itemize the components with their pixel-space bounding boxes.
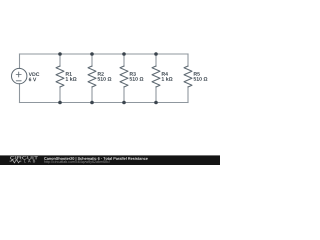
wire VDC top lead (19, 54, 21, 68)
label 6 V (29, 78, 37, 82)
wire R2 bottom lead (91, 87, 93, 103)
label R3 (130, 72, 136, 76)
resistor R3 zigzag (120, 66, 128, 87)
V1 minus sign (16, 80, 21, 82)
wire R1 bottom lead (59, 87, 61, 103)
V1 plus sign (16, 72, 21, 77)
footer bar (0, 155, 220, 165)
wire R5 bottom lead (187, 87, 189, 103)
node junction bottom R2 (90, 101, 94, 105)
wire R4 top lead (155, 54, 157, 66)
resistor R2 zigzag (88, 66, 96, 87)
wire R5 top lead (187, 54, 189, 66)
node junction bottom R1 (58, 101, 62, 105)
node junction bottom R3 (122, 101, 126, 105)
footer title text (44, 157, 148, 161)
wire R1 top lead (59, 54, 61, 66)
resistor R1 zigzag (56, 66, 64, 87)
node junction top R3 (122, 52, 126, 56)
CircuitLab logo resistor glyph (10, 159, 22, 162)
wire VDC bottom lead (19, 84, 21, 103)
label R4 (162, 72, 168, 76)
wire R3 top lead (123, 54, 125, 66)
wire top rail (20, 53, 189, 55)
label R1 (66, 72, 72, 76)
wire R2 top lead (91, 54, 93, 66)
node junction top R2 (90, 52, 94, 56)
wire R4 bottom lead (155, 87, 157, 103)
label 1 kΩ of R4 (162, 77, 173, 81)
label 510 Ω of R3 (130, 77, 144, 81)
label 510 Ω of R5 (194, 77, 208, 81)
wire R3 bottom lead (123, 87, 125, 103)
resistor R5 zigzag (184, 66, 192, 87)
label VDC (29, 72, 40, 76)
CircuitLab logo wordmark CIRCUIT (10, 156, 38, 159)
node junction bottom R4 (154, 101, 158, 105)
label 1 kΩ of R1 (66, 77, 77, 81)
wire bottom rail (20, 102, 189, 104)
node junction top R4 (154, 52, 158, 56)
label 510 Ω of R2 (98, 77, 112, 81)
node junction top R1 (58, 52, 62, 56)
resistor R4 zigzag (152, 66, 160, 87)
CircuitLab logo wordmark LAB (24, 160, 35, 163)
voltage source V1 circle (12, 68, 27, 83)
footer url text (44, 160, 110, 163)
label R5 (194, 72, 200, 76)
label R2 (98, 72, 104, 76)
